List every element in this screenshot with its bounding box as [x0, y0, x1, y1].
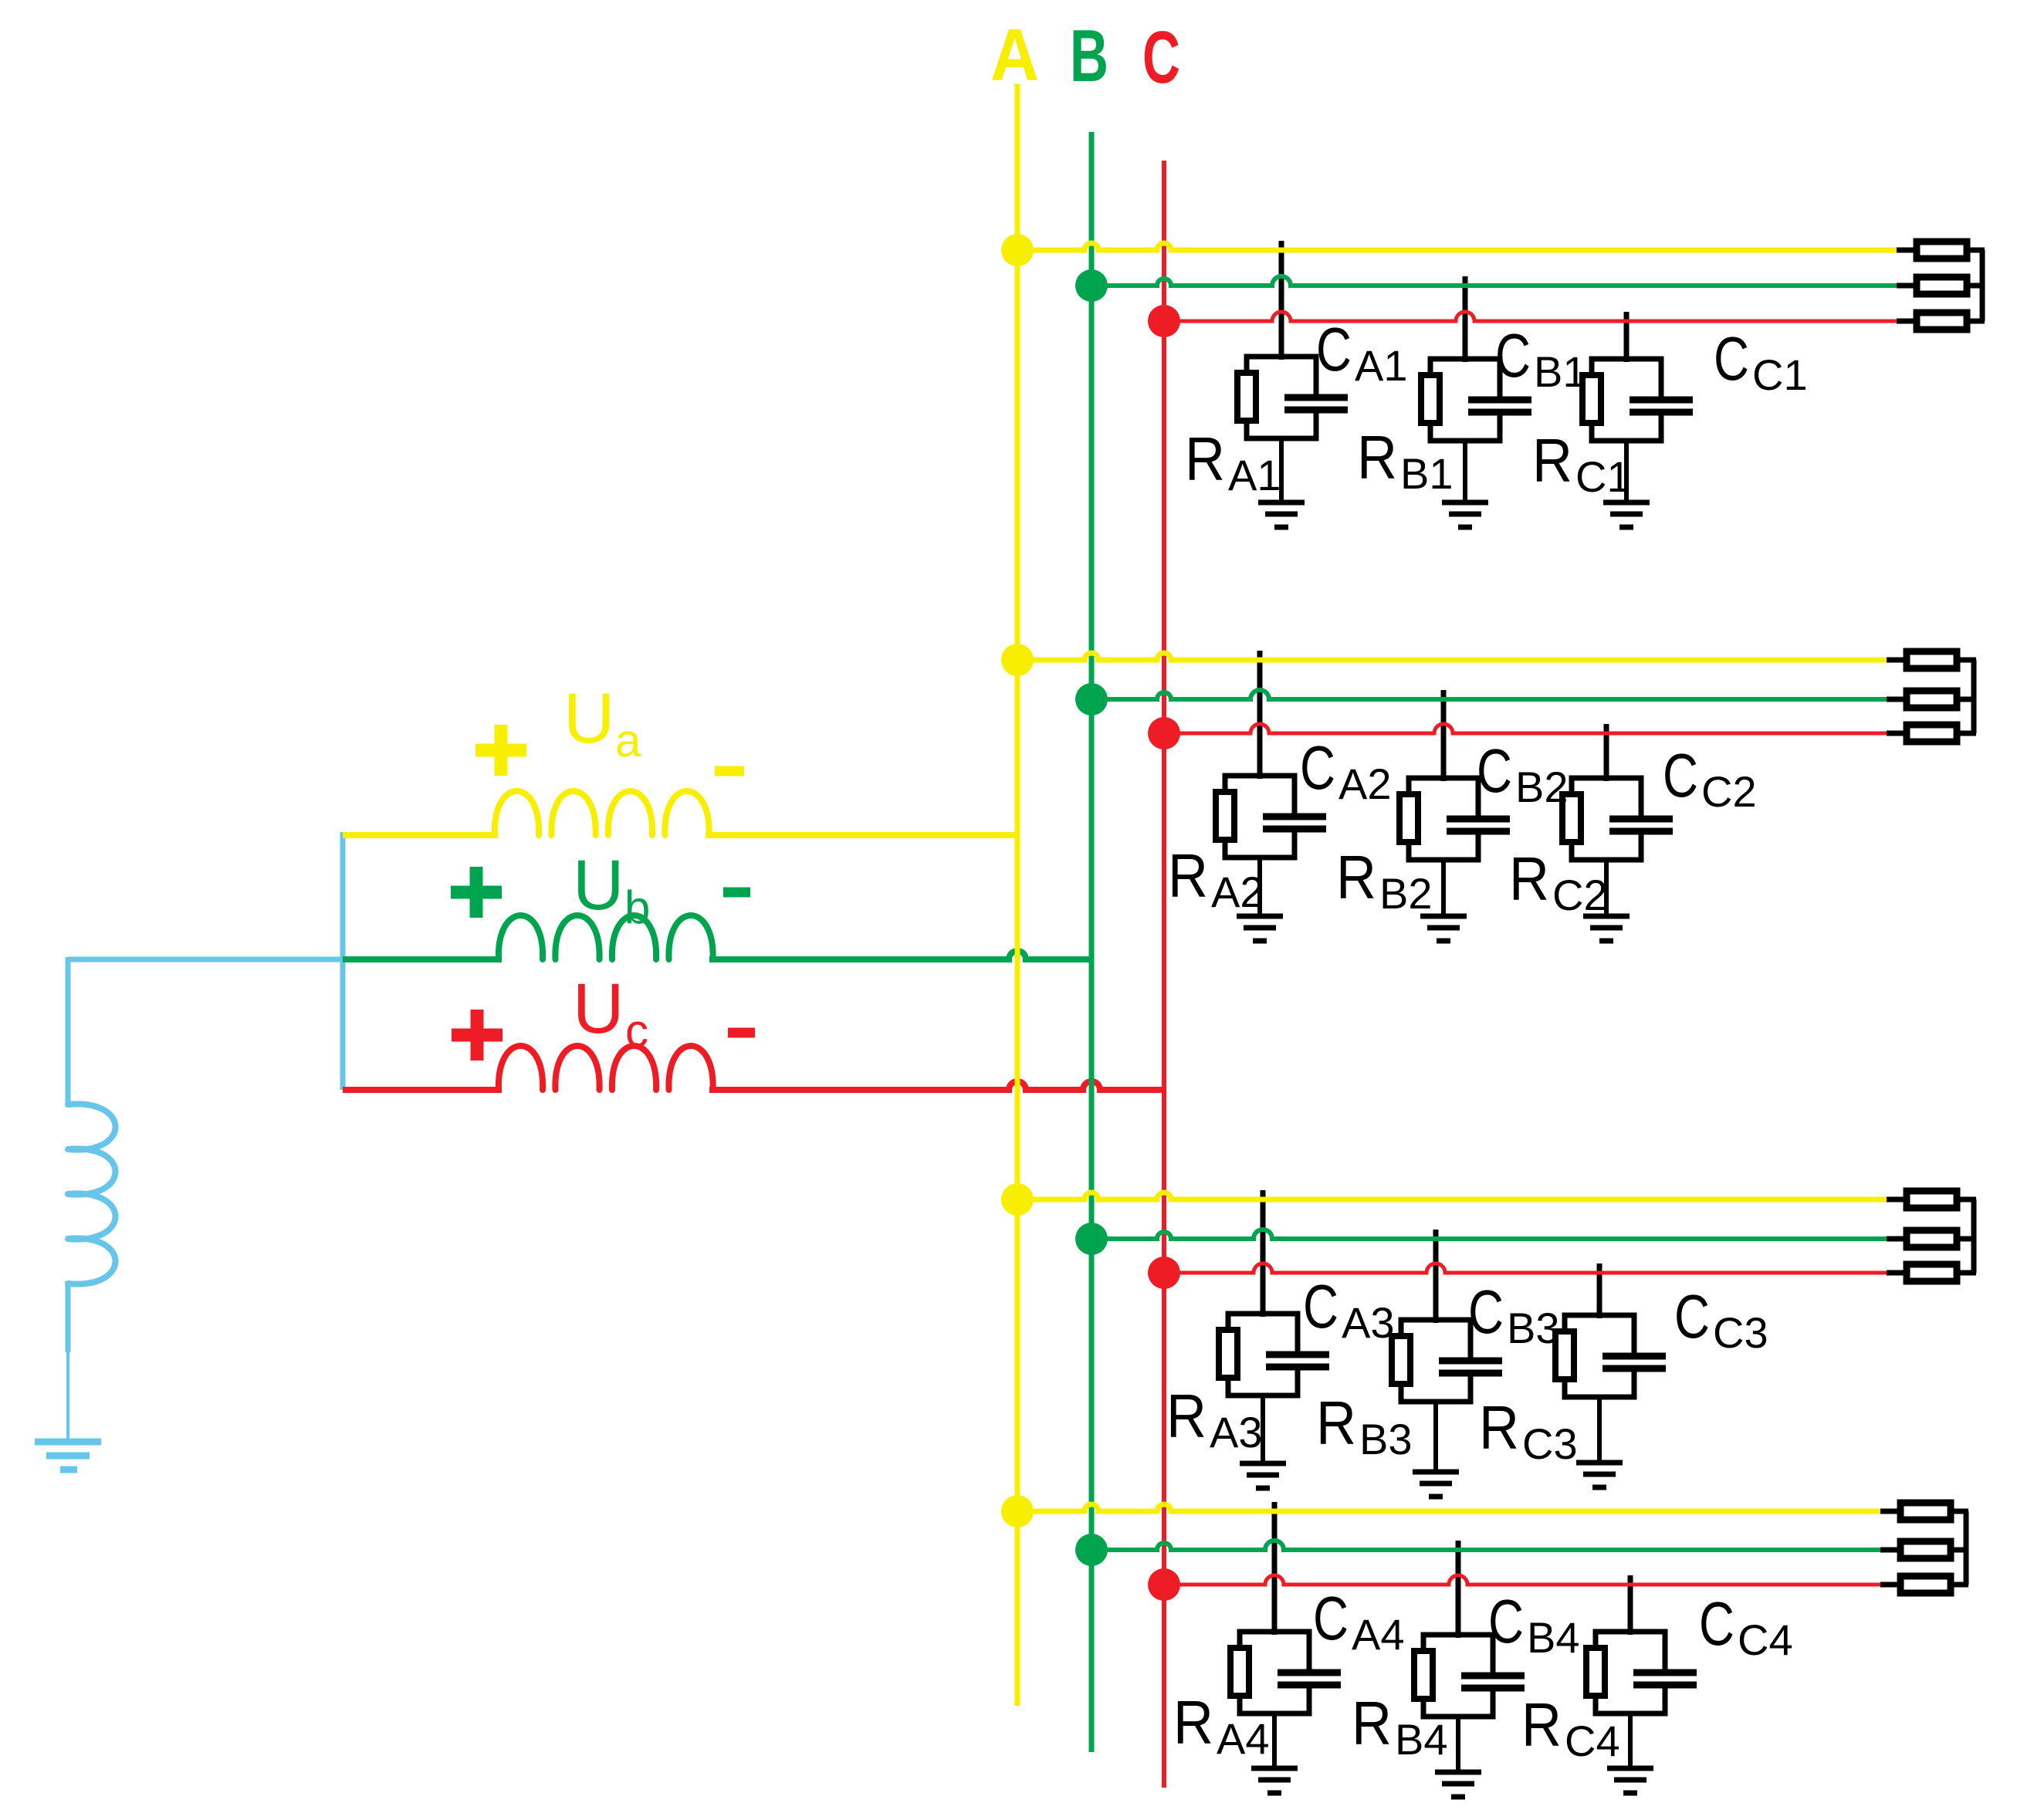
resistor RA4: [1230, 1648, 1249, 1696]
svg-text:U: U: [563, 679, 614, 758]
capacitor CA4: [1304, 1673, 1315, 1684]
resistor RC2: [1562, 794, 1581, 842]
svg-text:a: a: [615, 715, 641, 766]
wire: branch 1 phase A lead to load terminal: [1897, 248, 1917, 253]
node: branch 4 tap on bus A: [1001, 1495, 1034, 1527]
svg-text:R: R: [1336, 843, 1376, 912]
svg-text:C: C: [1313, 1584, 1349, 1653]
inductor L0 (blue neutral coil): [68, 1104, 116, 1284]
svg-text:C2: C2: [1701, 767, 1757, 816]
node: branch 4 tap on bus C: [1148, 1568, 1180, 1601]
ground (block C4): [1607, 1766, 1653, 1771]
svg-text:R: R: [1352, 1689, 1392, 1757]
wire: lead bus A feed to block A4: [1272, 1502, 1278, 1635]
node: branch 2 tap on bus A: [1001, 644, 1034, 676]
inductor source Uc (red coil): [499, 1046, 713, 1090]
wire: neutral to ground (blue): [66, 1281, 71, 1352]
wire: branch 3 phase C (red, hops over leads A3, B3): [1164, 1264, 1891, 1273]
resistor RC1: [1582, 375, 1601, 423]
svg-text:R: R: [1168, 841, 1208, 910]
wire: terminal bracket branch 2: [1957, 658, 1976, 663]
wire: lead bus C feed to block C1: [1624, 312, 1630, 362]
wire: RC block B1 frame: [1430, 359, 1500, 441]
capacitor CA2: [1289, 817, 1300, 828]
capacitor CC4: [1660, 1673, 1670, 1684]
wire: branch 1 phase C (red, hops over leads A1, B1): [1164, 312, 1901, 321]
svg-text:C1: C1: [1575, 452, 1631, 501]
svg-text:B4: B4: [1527, 1613, 1580, 1662]
wire: RC block A1 frame: [1247, 357, 1316, 438]
wire: block B3 to ground: [1433, 1402, 1438, 1473]
load terminal A4: [1900, 1503, 1951, 1520]
svg-text:C4: C4: [1565, 1717, 1620, 1765]
label - (Uc polarity): [728, 1028, 755, 1038]
capacitor CB1: [1494, 400, 1505, 411]
wire: RC block B2 frame: [1409, 778, 1478, 860]
svg-text:C: C: [1663, 741, 1698, 810]
svg-text:R: R: [1185, 425, 1225, 493]
svg-text:C: C: [1477, 736, 1512, 805]
wire: terminal bracket branch 3: [1957, 1197, 1976, 1203]
node: branch 4 tap on bus B: [1075, 1534, 1108, 1566]
node: branch 3 tap on bus B: [1075, 1223, 1108, 1255]
wire: lead bus A feed to block A2: [1257, 651, 1263, 779]
svg-text:A2: A2: [1339, 759, 1392, 808]
svg-text:R: R: [1532, 426, 1572, 495]
wire: RC block B3 frame: [1401, 1320, 1471, 1402]
node: branch 2 tap on bus C: [1148, 717, 1180, 749]
svg-text:U: U: [573, 969, 624, 1048]
capacitor CA3: [1292, 1355, 1303, 1366]
wire: branch 1 phase A (yellow, hops over bus B, bus C): [1017, 243, 1901, 250]
svg-text:C3: C3: [1713, 1308, 1768, 1357]
wire: branch 2 phase B lead to load terminal: [1887, 697, 1907, 702]
svg-text:B4: B4: [1395, 1715, 1448, 1764]
wire: RC block A4 frame: [1240, 1632, 1309, 1713]
wire: lead bus B feed to block B2: [1441, 690, 1447, 781]
wire: branch 3 phase A lead to load terminal: [1887, 1197, 1907, 1203]
svg-text:C: C: [1674, 1282, 1710, 1351]
svg-text:R: R: [1316, 1389, 1356, 1457]
ground (block A2): [1237, 914, 1283, 919]
svg-text:C1: C1: [1752, 350, 1808, 399]
svg-text:A1: A1: [1228, 451, 1281, 499]
wire: lead bus B feed to block B1: [1463, 276, 1468, 362]
wire: Ua to bus A: [706, 832, 1017, 838]
wire: terminal bracket branch 1: [1967, 248, 1985, 253]
ground (block C1): [1603, 500, 1650, 506]
ground (block C2): [1583, 914, 1630, 919]
svg-text:C: C: [1316, 315, 1352, 384]
svg-text:C2: C2: [1552, 871, 1608, 919]
svg-text:R: R: [1521, 1690, 1562, 1759]
ground (block B4): [1435, 1770, 1481, 1775]
wire: block A3 to ground: [1261, 1395, 1265, 1464]
ground (block A4): [1251, 1766, 1298, 1771]
load terminal B3: [1907, 1230, 1957, 1247]
node: branch 1 tap on bus C: [1148, 305, 1180, 337]
wire: RC block B4 frame: [1423, 1635, 1493, 1717]
svg-text:B2: B2: [1379, 869, 1433, 918]
wire: Ub left lead: [343, 956, 502, 962]
ground (block C3): [1576, 1460, 1623, 1466]
wire: RC block A3 frame: [1228, 1314, 1298, 1395]
wire: branch 2 phase C lead to load terminal: [1887, 731, 1907, 736]
wire: block C1 to ground: [1624, 441, 1629, 503]
svg-text:R: R: [1173, 1688, 1213, 1757]
node: branch 1 tap on bus B: [1075, 269, 1108, 302]
load terminal A3: [1907, 1191, 1957, 1208]
resistor RB1: [1421, 375, 1440, 423]
wire: RC block C4 frame: [1596, 1632, 1665, 1713]
load terminal C3: [1907, 1264, 1957, 1281]
wire: block B4 to ground: [1456, 1717, 1460, 1773]
load terminal C4: [1900, 1576, 1951, 1593]
wire: block C3 to ground: [1597, 1397, 1602, 1463]
svg-text:A3: A3: [1342, 1298, 1395, 1347]
bus C (red vertical): [1162, 161, 1166, 1788]
svg-text:C3: C3: [1522, 1419, 1578, 1468]
load terminal C2: [1907, 725, 1957, 742]
svg-text:C: C: [1699, 1589, 1734, 1658]
wire: Uc to bus C (hops over bus A, bus B): [709, 1081, 1164, 1090]
ground (block A1): [1258, 500, 1305, 506]
inductor source Ua (yellow coil): [495, 791, 709, 835]
resistor RA2: [1216, 792, 1234, 840]
wire: branch 4 phase C (red, hops over leads A4, B4): [1164, 1575, 1885, 1585]
node: branch 2 tap on bus B: [1075, 683, 1108, 715]
wire: block C4 to ground: [1628, 1713, 1633, 1769]
wire: lead bus C feed to block C2: [1604, 724, 1609, 781]
capacitor CC2: [1636, 819, 1646, 831]
svg-text:B3: B3: [1507, 1304, 1560, 1352]
wire: branch 3 phase B (green, hops over bus C and lead A3): [1091, 1230, 1891, 1239]
wire: branch 4 phase B lead to load terminal: [1880, 1548, 1900, 1553]
wire: branch 3 phase C lead to load terminal: [1887, 1270, 1907, 1276]
wire: branch 1 phase B lead to load terminal: [1897, 283, 1917, 289]
svg-text:C: C: [1488, 1587, 1524, 1656]
svg-text:R: R: [1509, 844, 1549, 913]
svg-text:C4: C4: [1738, 1615, 1793, 1664]
capacitor CA1: [1311, 397, 1322, 409]
svg-text:B1: B1: [1534, 347, 1587, 396]
capacitor CC1: [1656, 400, 1667, 411]
svg-text:C: C: [1300, 733, 1335, 802]
label + (Ua polarity): [476, 744, 526, 757]
wire: lead bus C feed to block C3: [1597, 1264, 1602, 1318]
resistor RB3: [1392, 1336, 1410, 1384]
svg-text:B3: B3: [1359, 1415, 1413, 1463]
wire: neutral down lead (blue): [66, 957, 71, 1107]
label + (Uc polarity): [452, 1029, 503, 1042]
label + (Ub polarity): [451, 886, 502, 899]
wire: RC block A2 frame: [1225, 776, 1295, 858]
ground (block A3): [1240, 1461, 1286, 1466]
capacitor CC3: [1629, 1356, 1640, 1368]
wire: RC block C1 frame: [1592, 359, 1661, 441]
svg-text:R: R: [1479, 1393, 1519, 1462]
label - (Ua polarity): [715, 766, 744, 776]
node: branch 1 tap on bus A: [1001, 234, 1034, 266]
wire: Uc left lead: [343, 1087, 502, 1093]
inductor source Ub (green coil): [499, 915, 713, 959]
node: branch 3 tap on bus A: [1001, 1183, 1034, 1216]
bus A (yellow vertical): [1015, 84, 1020, 1706]
wire: block C2 to ground: [1604, 860, 1609, 917]
svg-text:R: R: [1357, 423, 1397, 492]
wire: branch 4 phase A lead to load terminal: [1880, 1509, 1900, 1514]
resistor RB4: [1414, 1651, 1433, 1699]
wire: lead bus A feed to block A1: [1279, 241, 1284, 360]
load terminal C1: [1917, 313, 1967, 330]
wire: block A4 to ground: [1272, 1713, 1277, 1769]
resistor RA1: [1237, 373, 1256, 421]
wire: lead bus B feed to block B3: [1433, 1230, 1439, 1323]
node: branch 3 tap on bus C: [1148, 1257, 1180, 1289]
wire: branch 4 phase C lead to load terminal: [1880, 1582, 1900, 1588]
wire: block A2 to ground: [1257, 858, 1262, 917]
wire: branch 2 phase A lead to load terminal: [1887, 658, 1907, 663]
wire: block B1 to ground: [1463, 441, 1467, 503]
svg-text:C: C: [1142, 16, 1180, 99]
wire: branch 1 phase B (green, hops over bus C and lead A1): [1091, 276, 1901, 286]
svg-text:C: C: [1303, 1272, 1339, 1341]
wire: block A1 to ground: [1279, 438, 1284, 503]
ground (block B3): [1413, 1470, 1459, 1475]
ground (block B2): [1420, 914, 1467, 919]
wire: Ub to bus B (hop over bus A): [709, 951, 1091, 959]
load terminal A1: [1917, 242, 1967, 259]
wire: neutral horizontal (blue): [68, 957, 345, 962]
load terminal A2: [1907, 651, 1957, 668]
wire: branch 3 phase B lead to load terminal: [1887, 1236, 1907, 1242]
svg-text:A: A: [990, 14, 1039, 96]
load terminal B2: [1907, 691, 1957, 708]
svg-text:B: B: [1070, 15, 1108, 97]
svg-text:C: C: [1468, 1277, 1504, 1346]
resistor RB2: [1399, 794, 1418, 842]
load terminal B4: [1900, 1541, 1951, 1558]
svg-text:A1: A1: [1355, 341, 1408, 390]
resistor RC3: [1555, 1331, 1574, 1379]
label - (Ub polarity): [723, 888, 750, 898]
wire: branch 2 phase C (red, hops over leads A2, B2): [1164, 724, 1891, 733]
wire: block B2 to ground: [1441, 860, 1446, 917]
wire: terminal bracket branch 4: [1951, 1509, 1968, 1514]
wire: branch 4 phase A (yellow, hops over bus B, bus C): [1017, 1504, 1885, 1511]
load terminal B1: [1917, 277, 1967, 294]
ground (block B1): [1442, 500, 1488, 506]
svg-text:C: C: [1714, 324, 1749, 393]
wire: neutral vertical riser (blue): [340, 832, 346, 1090]
svg-text:B1: B1: [1400, 449, 1454, 498]
wire: RC block C3 frame: [1565, 1315, 1634, 1397]
svg-text:A4: A4: [1352, 1610, 1405, 1659]
capacitor CB4: [1487, 1676, 1498, 1687]
capacitor CB3: [1465, 1361, 1476, 1372]
svg-text:A4: A4: [1217, 1714, 1270, 1763]
svg-text:R: R: [1166, 1382, 1207, 1450]
wire: branch 2 phase A (yellow, hops over bus B, bus C): [1017, 653, 1891, 660]
resistor RA3: [1219, 1330, 1237, 1378]
wire: lead bus A feed to block A3: [1261, 1190, 1266, 1317]
resistor RC4: [1586, 1648, 1605, 1696]
wire: lead bus C feed to block C4: [1628, 1575, 1633, 1635]
wire: branch 4 phase B (green, hops over bus C and lead A4): [1091, 1541, 1885, 1550]
wire: branch 2 phase B (green, hops over bus C and lead A2): [1091, 690, 1891, 699]
wire: branch 3 phase A (yellow, hops over bus B, bus C): [1017, 1192, 1891, 1199]
svg-text:A2: A2: [1211, 868, 1264, 916]
bus B (green vertical): [1089, 132, 1095, 1752]
svg-text:C: C: [1495, 321, 1531, 390]
wire: lead bus B feed to block B4: [1456, 1541, 1461, 1638]
ground (neutral, blue): [35, 1439, 101, 1446]
wire: RC block C2 frame: [1572, 778, 1641, 860]
svg-text:B2: B2: [1515, 763, 1569, 811]
svg-text:A3: A3: [1210, 1408, 1263, 1456]
capacitor CB2: [1473, 819, 1484, 831]
wire: branch 1 phase C lead to load terminal: [1897, 319, 1917, 324]
wire: Ua left lead: [343, 832, 498, 838]
